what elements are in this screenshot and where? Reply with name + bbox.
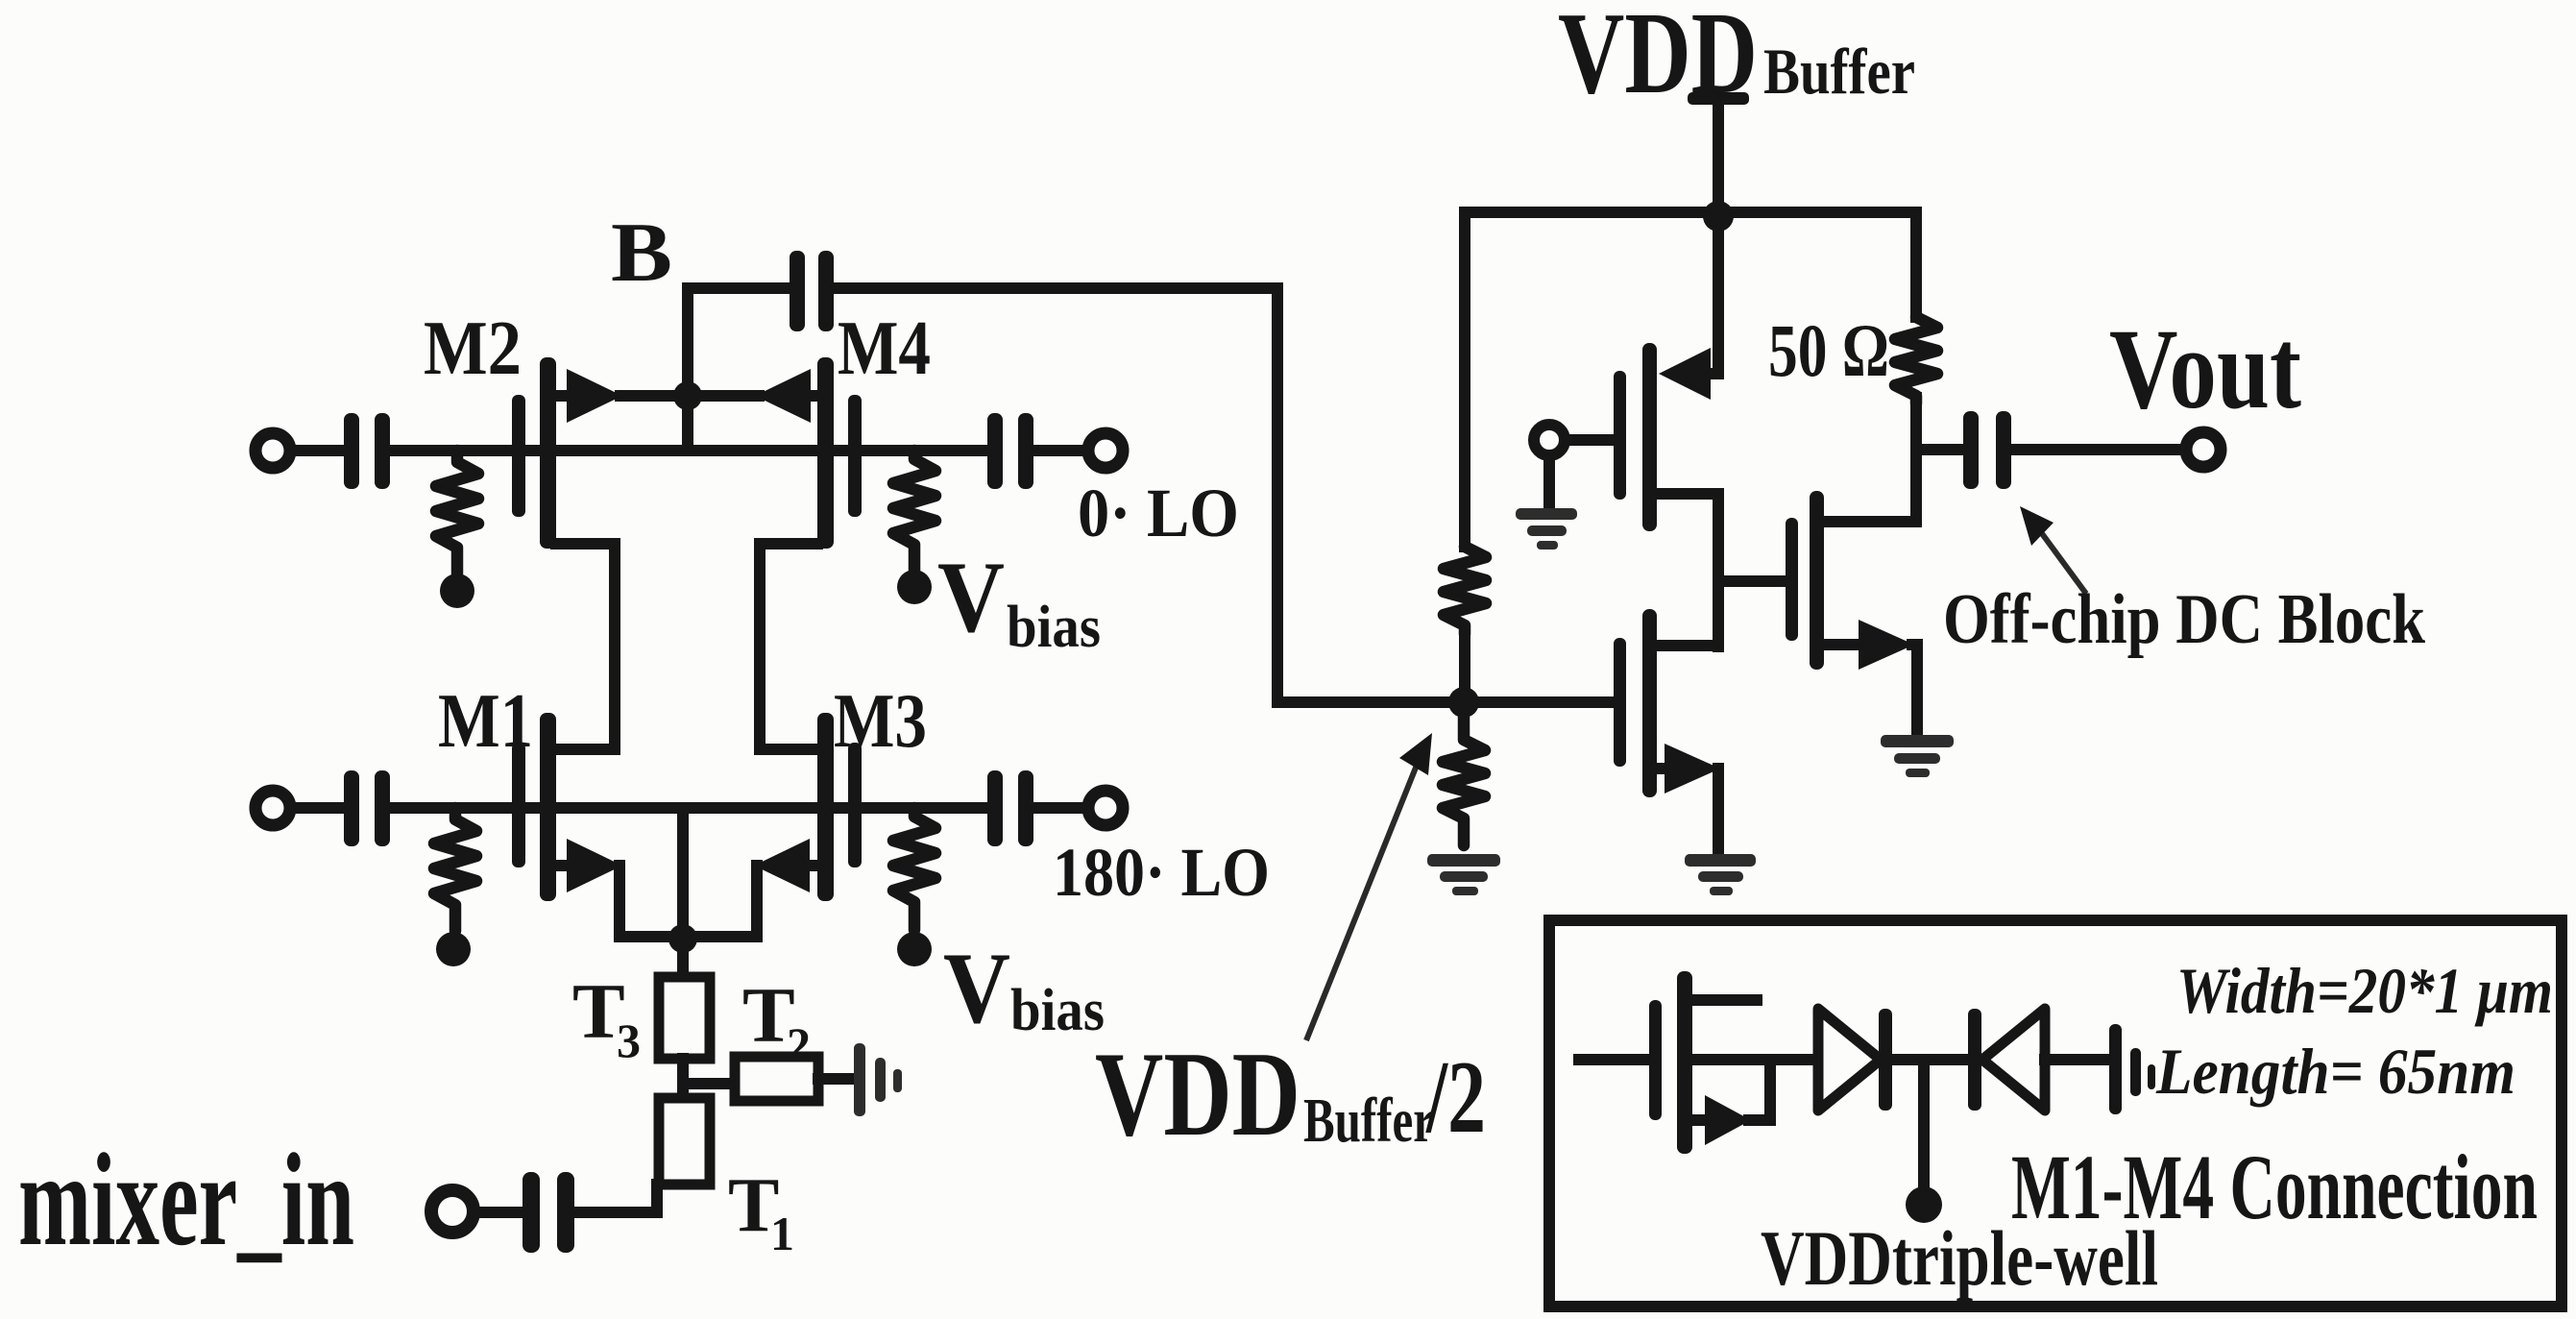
transistor M3 channel bar <box>817 713 834 901</box>
capacitor CB (node B series cap) <box>790 251 805 331</box>
transistor M3 gate bar <box>848 743 862 867</box>
node dot VDDtriple-well <box>1906 1186 1942 1223</box>
VDD junction dot <box>1703 201 1734 232</box>
annotation arrow DC block <box>2038 528 2086 594</box>
transistor MB3 channel bar <box>1642 609 1657 797</box>
svg-text:V: V <box>943 932 1010 1044</box>
MB2 source arm with arrow <box>1824 639 1863 650</box>
svg-text:Width=20*1 μm: Width=20*1 μm <box>2176 954 2553 1027</box>
MB2 drain arm <box>1824 516 1916 527</box>
wire branch to T2 <box>683 1078 735 1089</box>
transistor MB2 channel bar <box>1810 491 1824 670</box>
transistor M1 channel bar <box>540 713 556 901</box>
resistor Rdiv2 <box>1443 716 1485 845</box>
resistor R4 (row2 right, to Vbias) <box>893 808 936 930</box>
MB1 gate terminal circle <box>1534 425 1565 455</box>
svg-text:Off-chip DC Block: Off-chip DC Block <box>1943 580 2426 659</box>
transistor MB1 gate bar <box>1614 371 1626 500</box>
terminal 180 LO (row2 right) <box>1088 791 1123 825</box>
terminal LO- input (left, row2) <box>255 791 290 825</box>
ground (divider) <box>1427 854 1500 867</box>
wire cap to Vout terminal <box>2011 444 2182 455</box>
transistor M4 gate bar <box>848 395 862 517</box>
svg-text:V: V <box>937 541 1005 653</box>
wire D2 to end bars <box>2045 1054 2109 1065</box>
MB3 source arm with arrow <box>1657 763 1671 774</box>
wire tail to T3 <box>677 939 689 977</box>
divider junction dot <box>1448 687 1479 718</box>
resistor T3 (vertical rect) <box>659 977 710 1059</box>
tail junction dot <box>668 924 697 953</box>
svg-text:M3: M3 <box>834 679 927 764</box>
wire row2 main gate/bulk line <box>390 802 987 814</box>
capacitor Cout (off-chip DC block) <box>1963 411 1979 489</box>
terminal Vout <box>2186 432 2221 467</box>
power bar VDD <box>1688 92 1749 105</box>
MB1 source arm <box>1657 494 1718 647</box>
ground (MB1 gate) <box>1516 508 1577 520</box>
ground (MB2 source) <box>1881 735 1954 747</box>
wire T1 to mixer_in cap <box>574 1185 657 1212</box>
svg-text:bias: bias <box>1010 978 1105 1043</box>
svg-text:/2: /2 <box>1425 1040 1486 1155</box>
inset transistor channel bar <box>1677 971 1692 1154</box>
node dot R4 bottom Vbias <box>897 932 932 966</box>
svg-text:0· LO: 0· LO <box>1078 475 1239 551</box>
wire row1 main gate/bulk line <box>390 445 987 456</box>
svg-text:1: 1 <box>770 1207 794 1260</box>
left rail upper <box>1459 212 1470 547</box>
capacitor C5 (mixer_in) <box>522 1172 540 1253</box>
wire Rdiv1 to node <box>1459 629 1470 691</box>
wire terminal to cap <box>480 1207 522 1218</box>
node dot R3 bottom <box>436 932 471 966</box>
diode D2 (pointing left) <box>1968 1009 1981 1111</box>
inset mid wire to diode <box>1692 1054 1818 1065</box>
svg-text:Vout: Vout <box>2109 305 2301 432</box>
MB3 drain arm <box>1657 640 1718 651</box>
resistor R1 (row1 left shunt) <box>436 451 478 574</box>
capacitor C1 (row1 input) <box>344 413 359 489</box>
resistor 50 ohm <box>1895 317 1937 403</box>
transistor MB3 gate bar <box>1614 638 1626 767</box>
capacitor C4 (row2 LO output) <box>987 770 1003 846</box>
wire terminal to ground <box>1543 456 1555 510</box>
inset box border <box>1549 920 2562 1307</box>
capacitor C2 (row1 LO output) <box>987 413 1003 489</box>
M2 drain arm with arrow to node B <box>556 390 572 402</box>
transistor M2 channel bar <box>540 357 556 549</box>
transistor MB1 channel bar <box>1642 343 1657 531</box>
wire inset gate lead <box>1579 1054 1649 1065</box>
svg-text:VDDtriple-well: VDDtriple-well <box>1761 1214 2158 1302</box>
transistor M4 channel bar <box>817 357 834 549</box>
M2 source arm down to M1 drain <box>556 544 615 749</box>
resistor R2 (row1 right, to Vbias) <box>893 451 936 570</box>
wire VDD stem <box>1713 101 1724 212</box>
svg-text:180· LO: 180· LO <box>1053 834 1270 911</box>
wire gate terminal to MB1 <box>1566 434 1614 446</box>
wire T2 to ground <box>818 1073 854 1085</box>
common source bus <box>620 931 757 942</box>
bulk vertical row2 <box>677 808 689 937</box>
diode D1 (pointing right) <box>1818 1009 1881 1111</box>
right rail 50ohm to MB2 drain <box>1910 398 1922 522</box>
M1 source arm with arrow down to tail node <box>556 860 576 871</box>
node dot R2 bottom Vbias <box>897 570 932 604</box>
annotation arrow to divider node <box>1306 758 1420 1040</box>
svg-text:2: 2 <box>787 1017 811 1071</box>
long wire CB to buffer input <box>834 288 1614 702</box>
ground (MB3 source) <box>1685 854 1756 867</box>
node dot R1 bottom <box>440 574 474 608</box>
terminal LO+ input (left, row1) <box>255 433 290 468</box>
wire row1 LO+ input line left of cap <box>291 445 345 456</box>
terminal mixer_in <box>431 1190 474 1233</box>
wire to VDDtriple-well dot <box>1918 1060 1930 1191</box>
transistor M1 gate bar <box>512 743 525 867</box>
wire MB2 gate lead <box>1718 575 1786 587</box>
svg-text:Length= 65nm: Length= 65nm <box>2155 1035 2515 1108</box>
M3 source arm with arrow down to tail node <box>803 860 817 871</box>
wire node B to cap CB <box>688 282 790 294</box>
svg-text:Buffer: Buffer <box>1763 35 1915 108</box>
wire between diodes <box>1892 1054 1968 1065</box>
resistor Rdiv1 <box>1444 547 1486 634</box>
svg-text:Buffer: Buffer <box>1303 1086 1434 1156</box>
svg-text:bias: bias <box>1007 595 1101 660</box>
terminal 0 LO (row1 right) <box>1088 433 1123 468</box>
svg-text:VDD: VDD <box>1095 1028 1300 1161</box>
capacitor C3 (row2 input) <box>344 770 359 846</box>
ground (sideways, after T2) <box>854 1043 865 1116</box>
svg-text:3: 3 <box>617 1014 641 1067</box>
ground bars (inset end) <box>2109 1024 2122 1114</box>
resistor R3 (row2 left shunt) <box>434 808 476 931</box>
inset source arm with arrow <box>1692 1114 1710 1126</box>
M4 drain arm with arrow to node B <box>688 390 759 402</box>
svg-text:50 Ω: 50 Ω <box>1768 308 1889 392</box>
inset transistor drain stub <box>1692 994 1757 1006</box>
transistor M2 gate bar <box>512 395 525 517</box>
wire output node to cap <box>1916 444 1965 455</box>
top rail <box>1465 207 1916 218</box>
wire T3 to T1 <box>677 1059 689 1098</box>
svg-text:mixer_in: mixer_in <box>18 1126 354 1273</box>
inset transistor gate bar <box>1649 1000 1662 1120</box>
right rail upper to 50ohm <box>1910 212 1922 317</box>
node B vertical wire <box>682 288 693 451</box>
svg-text:M4: M4 <box>838 306 931 391</box>
rail VDD dot to MB1 drain <box>1713 212 1724 374</box>
node B junction dot <box>673 381 702 410</box>
wire row1 from cap to LO terminal <box>1033 445 1085 456</box>
resistor T1 (vertical rect) <box>659 1098 710 1185</box>
MB1 drain arm with arrow (points left) <box>1659 348 1711 400</box>
resistor T2 (horizontal rect) <box>735 1057 818 1101</box>
wire row2 from cap to LO terminal <box>1033 802 1085 814</box>
M4 source arm down to M3 drain <box>760 544 817 749</box>
transistor MB2 gate bar <box>1786 518 1798 641</box>
svg-text:M2: M2 <box>424 306 522 391</box>
wire row2 input line left of cap <box>291 802 345 814</box>
svg-text:B: B <box>611 207 672 300</box>
